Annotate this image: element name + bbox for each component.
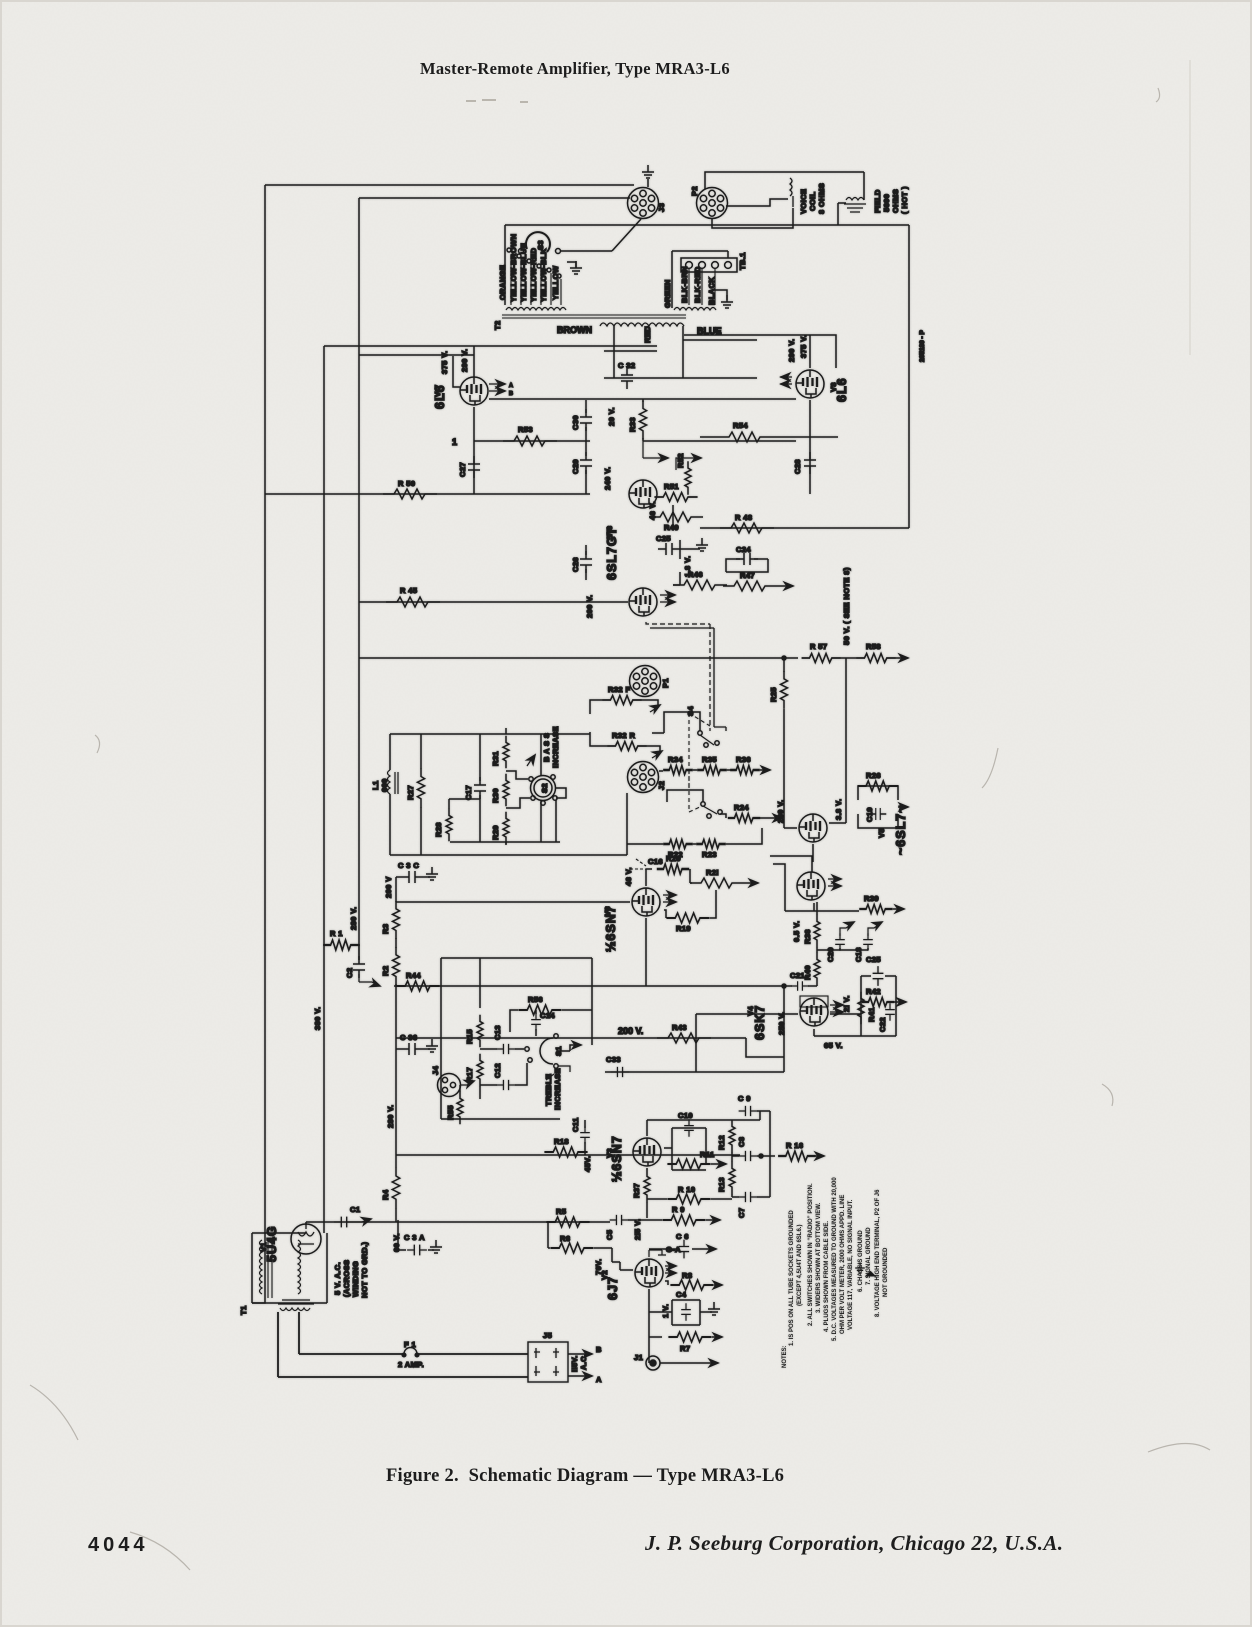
wire V8 cathode down [810,400,838,494]
wire J2 row 770 [659,770,764,771]
wire right border vertical [908,225,910,528]
transformer T1 [252,1233,327,1303]
resistor R26 box [858,786,898,828]
transformer T2 primary box [504,225,506,305]
resistor R24 [728,814,760,823]
resistor R17 [477,1054,483,1086]
wire top right bus [505,224,909,226]
switch S2 rotary [531,776,556,801]
V4 heater arrows [830,1005,840,1012]
wire T1 to fuse [278,1312,528,1377]
capacitor C16 dashed [630,859,646,869]
tube V4 6SK7 [800,998,828,1026]
capacitor C21 [791,981,809,991]
wire S3 to J3 [560,250,612,252]
tube V5B 6SL7 [797,872,825,900]
resistor R51 [654,493,697,502]
resistor R55 [457,1092,463,1124]
resistor R36 [730,766,760,775]
capacitor C17 [474,777,486,799]
connector J2 [628,762,659,793]
wire 1155 row [396,1154,740,1156]
resistor R57 [802,654,841,663]
resistor R5 [546,1217,589,1227]
capacitor C24 box [726,559,768,572]
switch S3 [526,232,550,252]
capacitor C36 [401,1043,423,1055]
wire V4 grid feed [696,1014,798,1072]
node junction 784 [782,984,786,988]
voice coil [790,178,793,207]
capacitor C5 [610,1215,629,1225]
resistor R27 [417,769,424,808]
bass increase arrow [527,757,533,766]
resistor R2 [393,947,400,985]
TB1 secondary coils [674,308,716,311]
capacitor C20 [817,948,840,950]
wire V6 plate up [673,505,680,585]
wire lower tap [667,790,726,818]
wire bass box to J2 [541,734,590,842]
switch S4 lower dashed [689,770,702,812]
capacitor C7 [739,1192,758,1202]
V3A heater arrows [663,895,673,902]
resistor R10 [667,1194,710,1204]
resistor R28 [446,809,452,841]
capacitor C9 [739,1106,758,1116]
connector J4 [438,1074,461,1097]
wire outer left bus [252,185,265,1303]
resistor R37 [644,1170,650,1202]
wire C33 row [605,1071,784,1073]
capacitor C25 [658,543,680,555]
wire S4 upper tap [652,712,700,733]
resistor R12 [729,1120,735,1152]
resistor R35 [697,766,727,775]
wire screen bus 346 [324,345,657,347]
resistor R46 [673,580,727,590]
capacitor C30 [580,409,592,431]
notes text block [782,1177,889,1368]
TB1 leads down [689,269,715,305]
wire screen bus 355 [359,351,657,355]
connector J3 [628,188,659,219]
wire to R6 [548,1222,550,1248]
wire R53 row [474,440,590,442]
switch S4 dashed [689,713,710,790]
connector P2 [697,188,728,219]
wire J3 to bus [612,219,641,251]
capacitor C12 [497,1080,516,1090]
capacitor C4 box [672,1300,700,1325]
tube V1 5U4G [291,1224,321,1254]
T2 primary tap leads [511,254,561,305]
wire R48 row [700,527,909,529]
wire V2 in [612,1262,633,1270]
capacitor C3A [398,1222,406,1250]
resistor R52 [685,461,691,494]
resistor R19 [666,913,709,923]
resistor R1 [323,940,358,950]
resistor R4 [392,1168,400,1209]
wire outer top bus [265,184,634,186]
resistor R21 [690,878,744,888]
V7 heater arrows [489,384,502,391]
wire tone row join [627,828,762,844]
resistor R58 [857,654,896,663]
wire 50V bus [359,657,798,659]
capacitor C6 [649,1248,712,1250]
resistor R31 [503,736,509,768]
capacitor C14 [531,1013,541,1031]
resistor R48 [720,523,774,533]
resistor R50 [383,489,437,499]
wire V3B block [647,1111,760,1218]
V8 heater arrows [780,377,792,384]
resistor R29 [503,812,509,844]
resistor R40 [814,953,820,985]
capacitor C18 [840,948,868,950]
resistor R32R [608,742,647,751]
tube V5A 6SL7 [799,814,827,842]
capacitor C2 [353,956,365,978]
wire V4 connections [814,1014,861,1036]
T2 primary coils [506,308,566,311]
wire V5A plate right [829,786,846,823]
resistor R20 [657,864,689,874]
resistor R7 [668,1332,711,1342]
arrows tone taps [643,441,697,470]
resistor R11 [667,1159,710,1169]
capacitor C22 [885,1003,895,1021]
resistor R22 [663,840,693,849]
capacitor C1 [334,1217,354,1228]
svg-text:Figure 2. Schematic Diagram —: Figure 2. Schematic Diagram — Type MRA3-… [386,1466,784,1486]
wire 200V row [396,1038,784,1057]
resistor R13 [729,1162,735,1194]
wire V7 cathode down [473,407,475,494]
tube V6B 6SL7GT [629,588,657,616]
resistor R33 [642,399,644,441]
resistor R53 [503,436,557,446]
resistor R6 [550,1243,593,1253]
wire 784 down [783,986,785,1072]
node bus junction [782,656,786,660]
wire R50 bus [265,493,590,495]
resistor R16 [778,1151,816,1161]
wire V3A out left [396,901,630,903]
resistor R30 [503,774,509,806]
connector J5 [528,1342,568,1382]
capacitor C25 [873,966,884,986]
svg-text:4044: 4044 [88,1534,149,1556]
bass network box [390,734,627,855]
ground black lead [715,290,727,300]
terminal strip TB1 [681,258,737,272]
field coil [844,198,866,213]
wire grid row 399 [489,398,796,400]
resistor R49 [649,512,703,522]
wire heater supply row [306,1220,610,1225]
resistor R39 [859,905,892,914]
wire TB1 loop [672,251,728,308]
svg-text:J. P. Seeburg Corporation, Chi: J. P. Seeburg Corporation, Chicago 22, U… [644,1531,1063,1555]
resistor R54 [718,432,772,442]
resistor R3 [393,901,400,939]
resistor R8 [670,1280,713,1290]
resistor R9 [662,1215,705,1225]
capacitor C26 [580,551,592,573]
switch S1 [540,1038,553,1064]
resistor R47 [723,581,777,591]
ground of yellow lead [567,262,576,268]
V2 heater arrows [665,1266,673,1273]
V6B heater arrows [660,595,672,602]
resistor R44 [396,981,439,991]
wire second frame left vertical [358,198,360,960]
wire left column vertical [395,877,397,1222]
V5B heater arrows [828,879,838,886]
resistor R41 [858,992,864,1024]
tube V8 6L6 [796,370,824,398]
notes symbols [855,1262,865,1272]
wire second frame top [359,197,630,199]
tube V7 6L6 [460,377,488,405]
S2 tap wires [506,771,566,808]
wire V3A top [646,869,652,886]
resistor R15 [477,1015,483,1047]
resistor R42 box [861,976,896,1036]
capacitor C28 right [804,452,816,474]
resistor R38 [814,915,820,947]
V2 grid cap [649,1250,666,1257]
resistor R45 [386,597,440,607]
tube V2 6J7 [635,1259,663,1287]
scan artifacts [466,100,528,102]
wire grid row 986 [394,985,817,987]
wire V2 cathode [649,1289,672,1363]
wire P2 to voice coil loop [705,172,864,228]
wire V3A cathode down [645,918,647,986]
treble box [441,958,592,1119]
T1 bottom winding [278,1300,314,1311]
wire V5B plate right [773,864,859,911]
ground at J3 [642,165,654,178]
secondary center tap box [604,326,757,378]
capacitor C33 [611,1067,630,1077]
wire 380V left vertical [323,346,325,1233]
wire BLUE to V8 plate [684,335,836,368]
resistor R23 [696,840,726,849]
S1 wiper out [558,1045,578,1051]
wire R45 row [359,601,628,603]
wire 441 row right [643,440,796,442]
inductor L1 [388,770,399,794]
tube V3A 6SN7 [632,888,660,916]
resistor R56 [518,1005,561,1015]
tube V6A 6SL7 [629,480,657,508]
capacitor C11 [580,1126,590,1144]
wire field coil feed [838,203,846,225]
resistor R18 [544,1147,587,1157]
dashed feedback pair [646,622,710,731]
wire V5A cathode [812,844,814,862]
resistor R34 [663,766,693,775]
T2 secondary coils [600,323,684,326]
capacitor C13 [497,1044,516,1054]
capacitor C27 [468,456,480,478]
resistor R43 [657,1033,711,1043]
capacitor C29 [580,452,592,474]
capacitor C8 [739,1151,758,1161]
connector P1 [630,666,661,697]
connector J1 [646,1356,660,1370]
svg-text:Master-Remote Amplifier, Type: Master-Remote Amplifier, Type MRA3-L6 [420,59,730,78]
resistor R32F [603,696,642,705]
resistor R25 [781,671,788,709]
wire 50V vertical to V5 [845,658,847,786]
capacitor C10 box [664,1128,706,1170]
tube V3B 6SN7 [633,1138,661,1166]
fuse F1 [404,1348,417,1355]
capacitor C3C [401,871,423,883]
